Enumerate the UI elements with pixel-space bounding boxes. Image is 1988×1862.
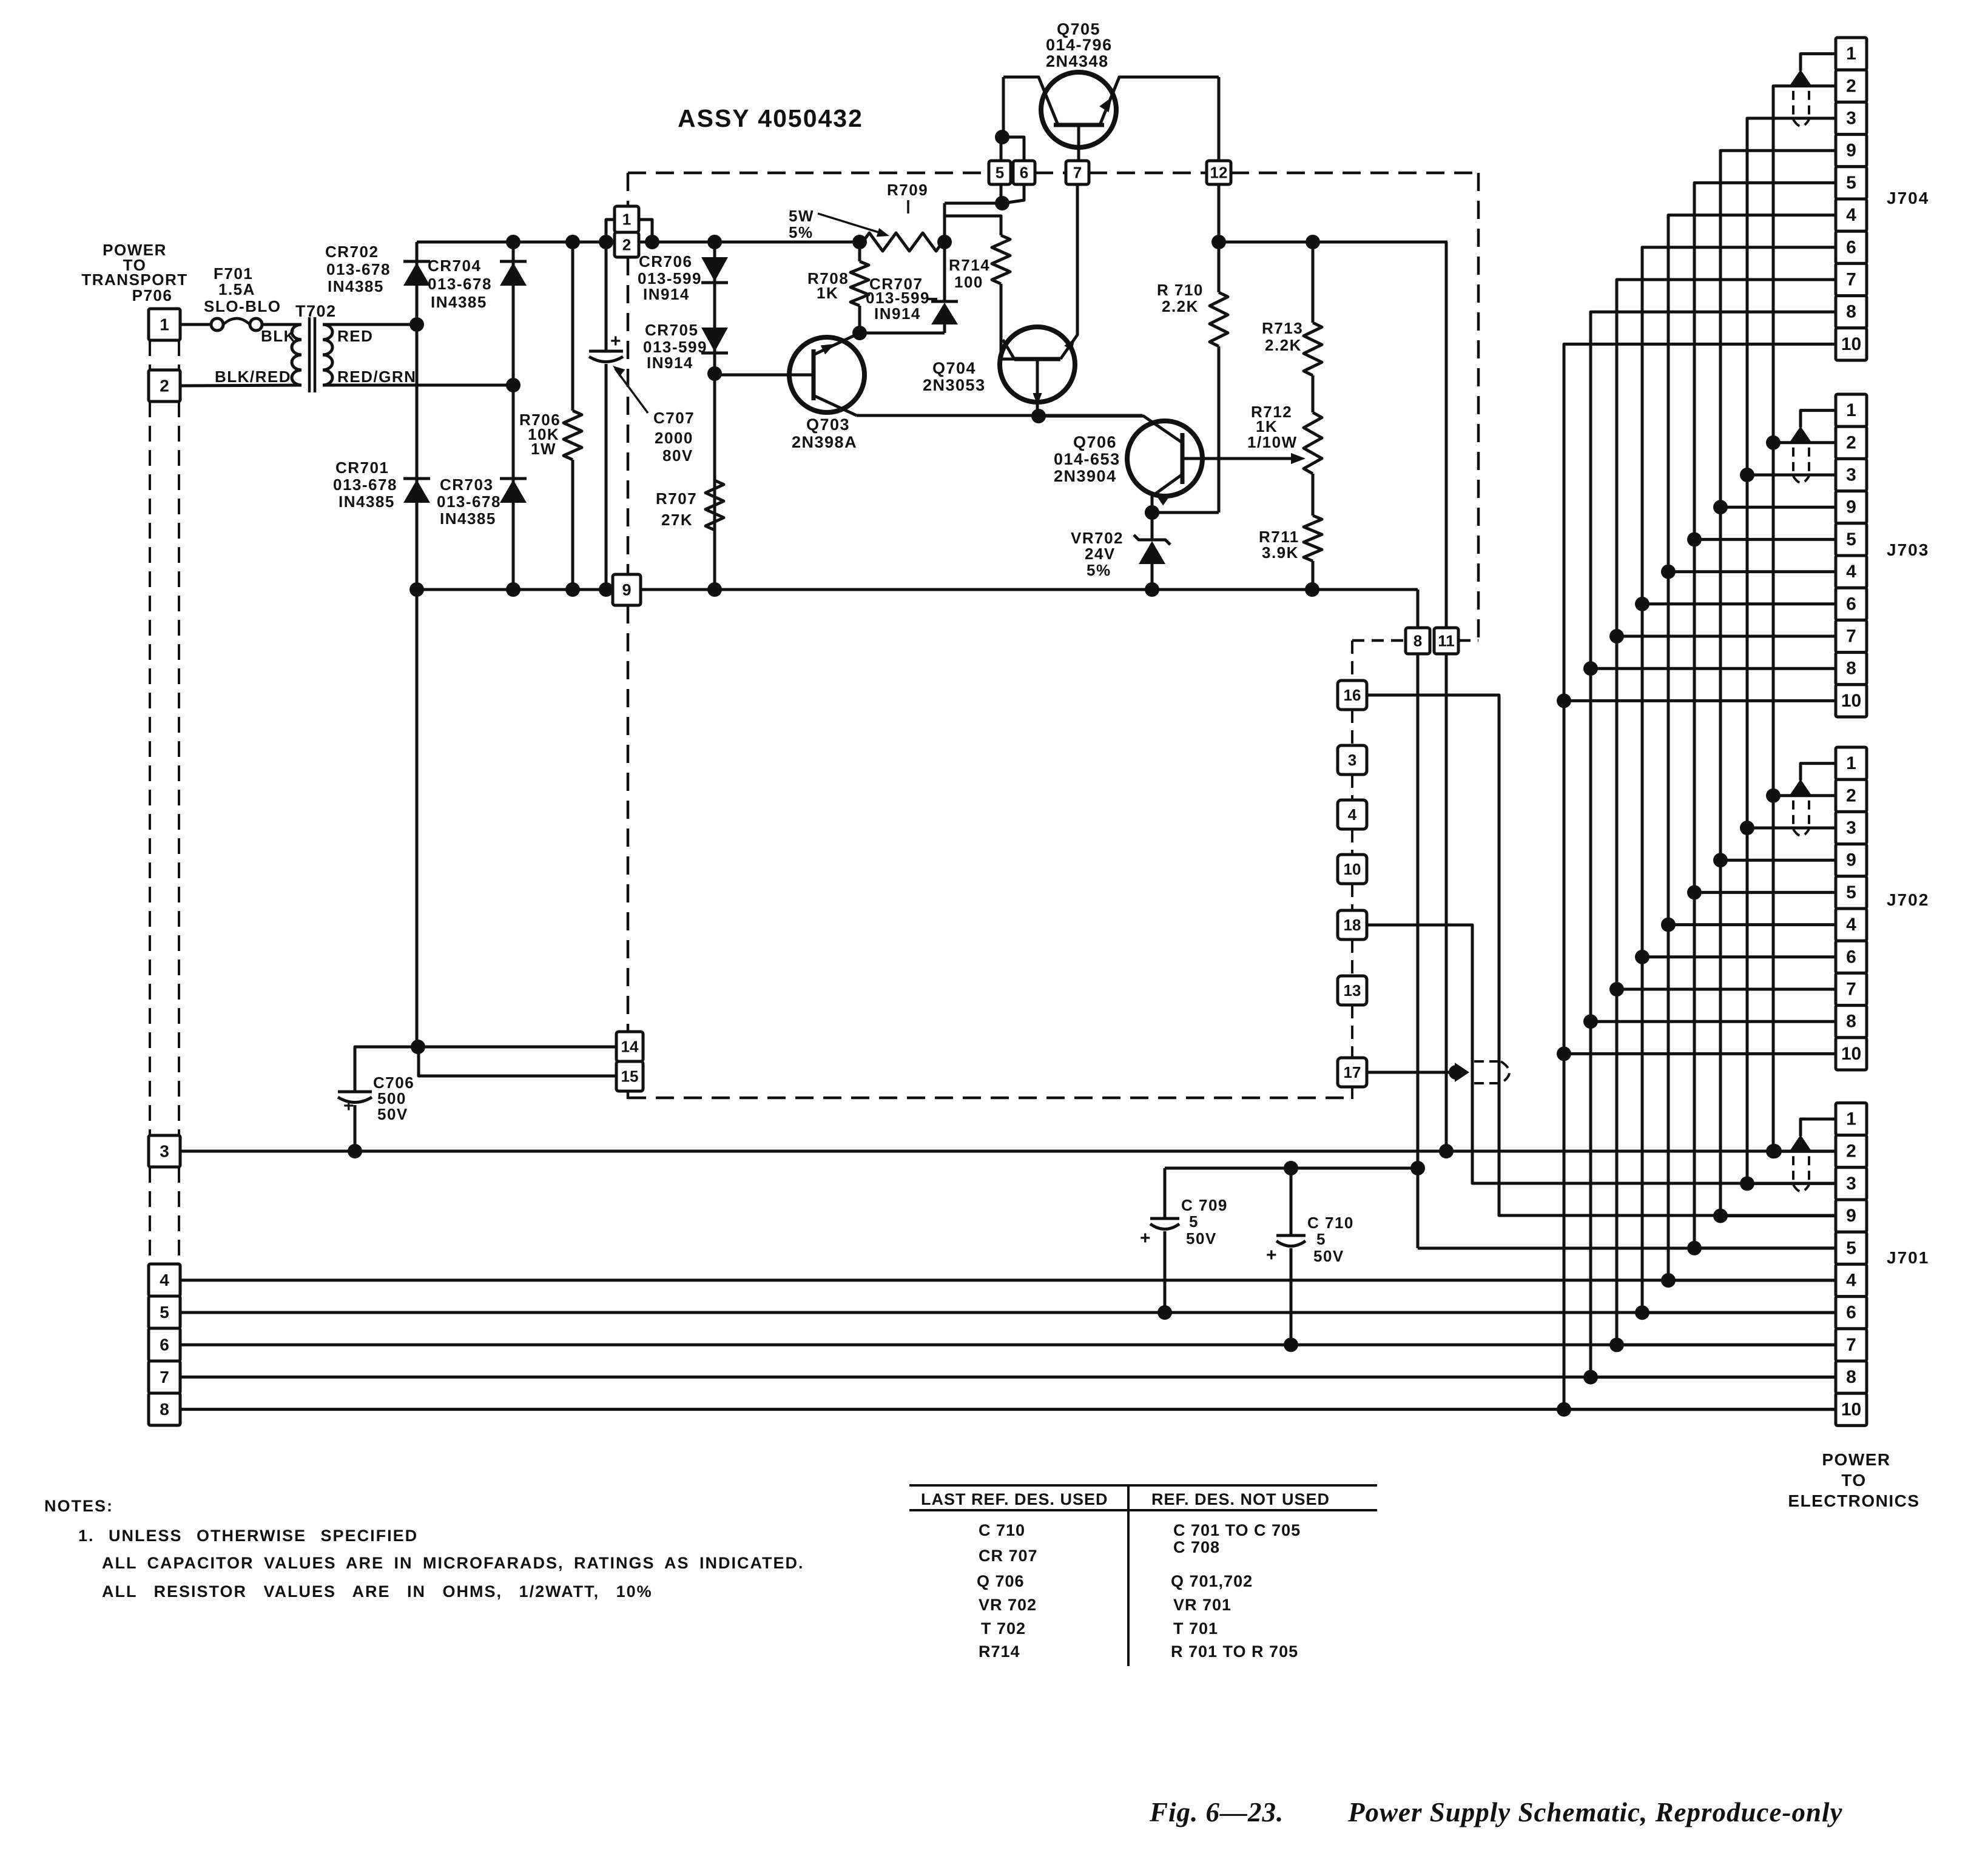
svg-text:7: 7 [1846,270,1856,290]
svg-text:CR702: CR702 [325,243,379,261]
svg-text:2N3053: 2N3053 [923,376,986,394]
svg-text:4: 4 [1846,562,1856,582]
svg-text:6: 6 [1846,947,1856,967]
svg-text:9: 9 [1846,141,1856,161]
svg-text:013-678: 013-678 [333,476,397,494]
svg-text:BLK/RED: BLK/RED [215,368,291,386]
svg-text:10: 10 [1841,691,1861,711]
svg-text:5: 5 [1189,1212,1199,1231]
svg-text:2.2K: 2.2K [1265,336,1302,354]
svg-text:3: 3 [1846,465,1856,485]
svg-text:+: + [1140,1228,1151,1248]
svg-text:Q703: Q703 [806,415,850,434]
svg-text:13: 13 [1344,981,1361,1000]
svg-text:6: 6 [1020,164,1028,182]
svg-text:7: 7 [1846,1335,1856,1355]
svg-text:18: 18 [1344,916,1361,934]
svg-text:6: 6 [1846,594,1856,614]
svg-text:27K: 27K [661,511,693,529]
svg-text:5: 5 [1846,882,1856,902]
svg-text:5: 5 [1846,529,1856,550]
svg-text:5: 5 [160,1303,169,1322]
svg-text:15: 15 [621,1067,639,1086]
svg-text:8: 8 [1414,632,1422,650]
svg-text:IN914: IN914 [643,285,690,303]
svg-text:1: 1 [1846,400,1856,420]
svg-text:Q704: Q704 [932,359,976,377]
svg-text:IN914: IN914 [874,304,921,323]
svg-text:5: 5 [1846,173,1856,193]
svg-text:014-653: 014-653 [1054,450,1120,468]
svg-text:2N3904: 2N3904 [1054,467,1117,485]
svg-text:7: 7 [160,1368,169,1386]
svg-text:1: 1 [622,210,631,229]
svg-text:IN4385: IN4385 [328,277,384,295]
svg-text:5%: 5% [1087,561,1111,579]
svg-text:3: 3 [160,1142,169,1161]
svg-text:7: 7 [1846,980,1856,1000]
svg-text:5: 5 [1316,1230,1326,1248]
svg-text:C 710: C 710 [1307,1214,1354,1232]
svg-text:100: 100 [954,273,983,291]
svg-text:3: 3 [1348,751,1356,769]
svg-text:CR701: CR701 [335,459,389,477]
svg-text:Q706: Q706 [1073,433,1117,451]
svg-text:CR705: CR705 [645,321,698,339]
svg-text:17: 17 [1344,1063,1361,1081]
svg-text:C 701 TO C 705: C 701 TO C 705 [1173,1521,1301,1539]
svg-text:16: 16 [1344,686,1361,704]
svg-text:P706: P706 [132,286,173,304]
svg-text:R714: R714 [979,1642,1020,1661]
svg-text:1: 1 [1846,1109,1856,1129]
svg-text:BLK: BLK [261,327,296,345]
svg-text:6: 6 [1846,1303,1856,1323]
svg-text:2: 2 [1846,1141,1856,1161]
svg-text:013-678: 013-678 [437,492,501,511]
svg-text:10: 10 [1344,860,1361,878]
svg-text:3.9K: 3.9K [1262,543,1299,562]
svg-text:5W: 5W [789,207,814,225]
svg-text:IN4385: IN4385 [440,509,496,528]
svg-text:C 710: C 710 [979,1521,1025,1539]
svg-text:12: 12 [1210,164,1228,182]
svg-text:1: 1 [1846,753,1856,773]
svg-text:NOTES:: NOTES: [44,1497,113,1515]
svg-text:J703: J703 [1887,540,1929,559]
svg-text:7: 7 [1846,627,1856,647]
svg-text:013-678: 013-678 [326,260,391,278]
svg-text:IN4385: IN4385 [339,492,395,511]
svg-text:2N4348: 2N4348 [1046,52,1109,70]
svg-text:ELECTRONICS: ELECTRONICS [1788,1491,1919,1510]
svg-text:CR 707: CR 707 [979,1547,1038,1565]
svg-text:RED: RED [337,327,373,345]
svg-text:2: 2 [1846,432,1856,452]
svg-text:CR703: CR703 [440,476,493,494]
svg-text:Q 701,702: Q 701,702 [1171,1572,1253,1590]
svg-text:50V: 50V [1186,1229,1217,1248]
svg-text:TO: TO [1841,1471,1866,1490]
svg-text:8: 8 [1846,1012,1856,1032]
svg-text:8: 8 [1846,302,1856,322]
svg-text:J702: J702 [1887,890,1929,909]
svg-text:IN914: IN914 [647,354,693,372]
svg-text:8: 8 [1846,1367,1856,1387]
svg-text:R713: R713 [1262,319,1303,337]
svg-text:C 709: C 709 [1181,1196,1228,1214]
svg-text:ALL RESISTOR VALUES ARE IN OHM: ALL RESISTOR VALUES ARE IN OHMS, 1/2WATT… [102,1582,653,1601]
svg-text:50V: 50V [1313,1247,1344,1265]
svg-text:8: 8 [1846,659,1856,679]
svg-text:J701: J701 [1887,1248,1929,1267]
svg-text:2: 2 [1846,76,1856,96]
svg-text:ASSY 4050432: ASSY 4050432 [678,104,863,132]
svg-text:3: 3 [1846,109,1856,129]
svg-text:11: 11 [1438,632,1455,650]
svg-text:1/10W: 1/10W [1247,433,1298,451]
svg-text:4: 4 [1348,805,1357,824]
svg-text:2: 2 [160,377,169,395]
svg-text:SLO-BLO: SLO-BLO [204,297,281,315]
svg-text:+: + [343,1096,355,1116]
svg-text:24V: 24V [1085,545,1116,563]
svg-text:013-678: 013-678 [428,275,492,293]
svg-text:9: 9 [1846,497,1856,517]
svg-text:1: 1 [1846,44,1856,64]
svg-text:Q 706: Q 706 [977,1572,1025,1590]
svg-text:CR704: CR704 [428,257,481,275]
svg-text:5: 5 [996,164,1004,182]
svg-text:2: 2 [1846,785,1856,805]
svg-text:4: 4 [160,1271,169,1289]
svg-text:6: 6 [1846,237,1856,257]
svg-text:Fig. 6—23.: Fig. 6—23. [1149,1797,1284,1827]
svg-text:2: 2 [622,236,631,254]
svg-text:T 702: T 702 [981,1619,1026,1638]
svg-text:6: 6 [160,1336,169,1354]
svg-text:10: 10 [1841,1399,1861,1419]
svg-text:R707: R707 [656,489,697,508]
svg-text:014-796: 014-796 [1046,36,1113,54]
svg-text:J704: J704 [1887,189,1929,207]
svg-text:2.2K: 2.2K [1162,297,1199,315]
svg-text:IN4385: IN4385 [431,293,487,311]
svg-text:10: 10 [1841,1044,1861,1064]
svg-text:C 708: C 708 [1173,1538,1220,1556]
svg-text:4: 4 [1846,915,1856,935]
svg-text:REF. DES. NOT USED: REF. DES. NOT USED [1151,1490,1330,1508]
svg-text:POWER: POWER [1822,1450,1890,1469]
svg-text:10: 10 [1841,334,1861,354]
svg-text:4: 4 [1846,205,1856,225]
svg-text:T 701: T 701 [1173,1619,1218,1638]
svg-text:R 710: R 710 [1157,281,1204,299]
svg-text:R714: R714 [949,256,990,274]
svg-text:2000: 2000 [655,429,693,447]
svg-text:80V: 80V [662,446,693,465]
svg-text:R709: R709 [887,181,928,199]
svg-text:1K: 1K [817,284,838,302]
svg-text:1: 1 [160,315,169,334]
svg-text:R 701 TO R 705: R 701 TO R 705 [1171,1642,1298,1661]
svg-text:3: 3 [1846,1174,1856,1194]
svg-text:RED/GRN: RED/GRN [337,368,416,386]
svg-text:7: 7 [1073,164,1082,182]
svg-text:5%: 5% [789,223,814,241]
svg-text:5: 5 [1846,1238,1856,1258]
svg-text:1W: 1W [531,440,556,458]
svg-text:4: 4 [1846,1271,1856,1291]
svg-text:1.5A: 1.5A [218,280,255,298]
svg-text:14: 14 [621,1038,639,1056]
svg-text:VR 702: VR 702 [979,1596,1037,1614]
svg-text:3: 3 [1846,818,1856,838]
svg-text:9: 9 [1846,1206,1856,1226]
svg-text:8: 8 [160,1400,169,1419]
svg-text:50V: 50V [377,1105,408,1123]
svg-text:VR 701: VR 701 [1173,1596,1232,1614]
svg-text:1. UNLESS OTHERWISE SPECIFIED: 1. UNLESS OTHERWISE SPECIFIED [78,1527,418,1545]
svg-text:+: + [610,331,622,351]
svg-text:Power Supply Schematic, Reprod: Power Supply Schematic, Reproduce-only [1347,1797,1842,1827]
svg-text:9: 9 [1846,850,1856,870]
svg-text:C707: C707 [653,409,695,427]
svg-text:2N398A: 2N398A [792,433,857,451]
svg-text:CR706: CR706 [639,252,692,271]
svg-text:LAST REF. DES. USED: LAST REF. DES. USED [921,1490,1108,1508]
svg-text:9: 9 [622,581,631,599]
svg-text:ALL CAPACITOR VALUES ARE IN MI: ALL CAPACITOR VALUES ARE IN MICROFARADS,… [102,1554,804,1572]
svg-text:+: + [1266,1245,1278,1265]
